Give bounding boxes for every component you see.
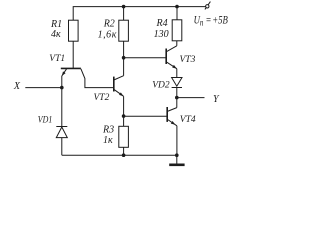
svg-text:VD2: VD2: [152, 80, 170, 90]
svg-text:VT2: VT2: [94, 93, 110, 103]
svg-text:1к: 1к: [103, 135, 113, 146]
svg-text:R2: R2: [103, 18, 115, 29]
svg-text:R3: R3: [102, 124, 114, 135]
svg-text:VT3: VT3: [180, 55, 196, 65]
svg-text:Uп=+5В: Uп=+5В: [194, 14, 229, 27]
svg-text:4к: 4к: [51, 29, 61, 40]
svg-text:X: X: [13, 81, 21, 92]
svg-text:130: 130: [154, 29, 169, 40]
svg-text:VT4: VT4: [180, 115, 196, 125]
svg-text:VT1: VT1: [49, 54, 65, 64]
svg-text:R4: R4: [156, 18, 168, 29]
svg-text:VD1: VD1: [38, 115, 53, 125]
svg-text:Y: Y: [213, 94, 220, 105]
svg-text:1,6к: 1,6к: [98, 29, 117, 40]
